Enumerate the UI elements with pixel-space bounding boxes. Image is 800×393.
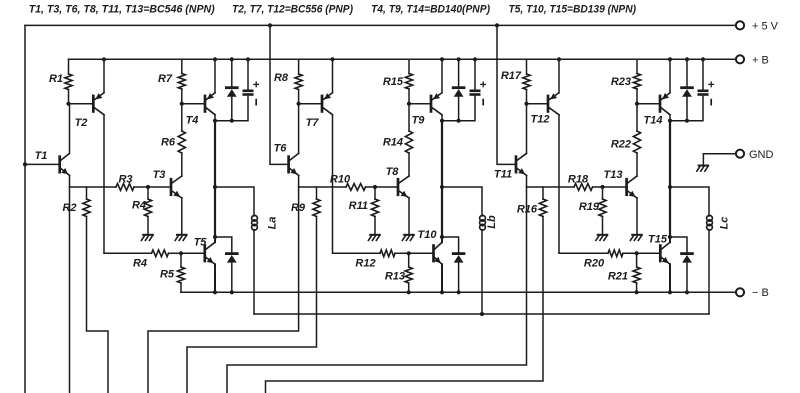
- wire T12 base: [527, 103, 549, 105]
- node T5 emitter -B: [213, 290, 217, 294]
- wire T14 emitter: [669, 59, 671, 92]
- wire T10 collector: [441, 237, 443, 242]
- wire left +5V drop / T1 base rail: [24, 25, 26, 393]
- wire T6 emitter: [298, 175, 300, 187]
- wire R21 bottom lead: [636, 283, 638, 292]
- node R13 -B: [407, 290, 411, 294]
- wire freewheel diode D4 top: [442, 237, 459, 252]
- wire T5 emitter: [214, 264, 216, 292]
- wire +5V drop to T6: [270, 25, 289, 164]
- resistor R19: [599, 199, 606, 217]
- svg-text:R6: R6: [161, 137, 176, 149]
- node B low: [440, 235, 444, 239]
- svg-text:R14: R14: [383, 137, 403, 149]
- resistor R23: [633, 74, 640, 90]
- wire GND lead: [703, 154, 735, 165]
- wire R15 leads: [408, 59, 410, 73]
- wire T13 emitter: [636, 198, 638, 234]
- svg-text:T1, T3, T6, T8, T11, T13=BC546: T1, T3, T6, T8, T11, T13=BC546 (NPN): [29, 4, 215, 16]
- node R23 bottom: [635, 102, 639, 106]
- wire T4 collector: [214, 115, 216, 121]
- wire T4 base: [182, 103, 205, 105]
- transistor T10: [432, 246, 435, 261]
- node D1 +B: [230, 57, 234, 61]
- wire inductor La top: [215, 187, 254, 216]
- svg-text:R5: R5: [160, 269, 175, 281]
- transistor T7: [321, 96, 324, 112]
- wire inductor Lb bottom: [481, 230, 483, 315]
- wire R20 to node: [623, 252, 660, 254]
- svg-text:Lc: Lc: [719, 217, 731, 230]
- wire T7 emitter: [332, 59, 334, 92]
- ground T3 emitter: [177, 234, 187, 236]
- wire R23 leads: [636, 59, 638, 73]
- wire node B row: [442, 97, 475, 121]
- node T15 emitter -B: [668, 290, 672, 294]
- transistor T14: [659, 96, 662, 112]
- node T7 emitter +B: [330, 57, 334, 61]
- transistor T6: [287, 157, 290, 173]
- wire R5 top lead: [180, 253, 182, 267]
- ground R11: [370, 234, 380, 236]
- diode D2: [226, 252, 237, 255]
- ground GND symbol: [699, 165, 709, 167]
- transistor T12: [547, 96, 550, 112]
- wire R19 top lead: [602, 187, 604, 199]
- wire R1 leads: [68, 59, 70, 74]
- wire R9 bottom exit: [187, 217, 317, 393]
- resistor R21: [633, 267, 640, 283]
- node D4 -B: [457, 290, 461, 294]
- svg-text:T9: T9: [412, 115, 426, 127]
- resistor R6: [178, 131, 185, 153]
- transistor T13: [625, 179, 628, 195]
- capacitor C2: [471, 90, 479, 93]
- svg-text:T4, T9, T14=BD140(PNP): T4, T9, T14=BD140(PNP): [371, 4, 490, 16]
- resistor R12: [380, 250, 395, 257]
- node T2 emitter +B: [102, 57, 106, 61]
- wire R14 top lead: [408, 104, 410, 131]
- terminal GND: [736, 150, 744, 158]
- svg-text:T7: T7: [306, 117, 320, 129]
- svg-text:R23: R23: [611, 76, 631, 88]
- ground R19: [598, 234, 608, 236]
- wire T11 emitter node: [527, 186, 575, 188]
- svg-text:T3: T3: [153, 169, 166, 181]
- wire +5V drop to T11: [497, 25, 516, 164]
- wire T2 collector corner: [104, 252, 152, 254]
- wire +5V rail: [25, 24, 736, 26]
- wire D3 leads: [458, 59, 460, 86]
- wire T9 emitter: [441, 59, 443, 92]
- wire R9 top lead: [316, 187, 318, 199]
- wire T6 collector: [298, 104, 300, 154]
- svg-text:R3: R3: [118, 174, 132, 186]
- node C low: [668, 235, 672, 239]
- wire T8 emitter: [408, 198, 410, 234]
- wire R2 bottom exit: [87, 217, 109, 393]
- svg-text:T2, T7, T12=BC556 (PNP): T2, T7, T12=BC556 (PNP): [232, 4, 353, 16]
- inductor La: [252, 215, 258, 221]
- wire R7 leads: [181, 59, 183, 73]
- wire T1 emitter: [69, 175, 71, 187]
- wire inductor La bottom: [253, 230, 255, 315]
- wire T9 base: [409, 103, 431, 105]
- node R21 top: [635, 251, 639, 255]
- svg-text:R8: R8: [274, 72, 289, 84]
- node T4 emitter +B: [213, 57, 217, 61]
- wire T15 collector: [669, 237, 671, 242]
- wire R3 to node: [134, 186, 171, 188]
- node diode D1 bottom: [230, 119, 234, 123]
- wire inductor Lc bottom: [708, 230, 710, 315]
- node R17 bottom: [524, 102, 528, 106]
- wire D2 bottom lead: [231, 263, 233, 292]
- node diode D5 bottom: [685, 119, 689, 123]
- svg-text:− B: − B: [752, 287, 769, 299]
- wire T2 collector drop: [103, 115, 105, 254]
- svg-text:R12: R12: [355, 258, 375, 270]
- node C2 +B: [473, 57, 477, 61]
- wire R5 bottom to -B: [181, 283, 214, 292]
- transistor T4: [204, 96, 207, 112]
- wire T5 collector: [214, 237, 216, 242]
- wire T9 collector: [441, 115, 443, 121]
- resistor R20: [608, 250, 623, 257]
- wire T12 collector corner: [559, 252, 608, 254]
- inductor Lc: [707, 215, 713, 221]
- svg-text:R7: R7: [158, 73, 173, 85]
- node B collector: [440, 119, 444, 123]
- svg-text:+ B: + B: [752, 55, 769, 67]
- wire R4 to node: [169, 252, 205, 254]
- svg-text:R4: R4: [133, 258, 147, 270]
- node R7 bottom: [180, 102, 184, 106]
- wire R10 to node: [366, 186, 399, 188]
- resistor R22: [633, 131, 640, 153]
- wire D5 leads: [686, 59, 688, 86]
- wire R16 bottom exit: [266, 217, 544, 393]
- node diode D3 bottom: [457, 119, 461, 123]
- svg-text:R13: R13: [385, 271, 405, 283]
- wire T1 base: [25, 163, 60, 165]
- wire freewheel diode D6 top: [670, 237, 687, 252]
- node C3 +B: [701, 57, 705, 61]
- svg-text:R11: R11: [349, 200, 368, 212]
- transistor T1: [58, 157, 61, 173]
- node D5 +B: [685, 57, 689, 61]
- svg-text:R16: R16: [517, 204, 538, 216]
- node D3 +B: [457, 57, 461, 61]
- svg-text:R17: R17: [501, 70, 522, 82]
- node T1 base: [23, 162, 27, 166]
- node C1 +B: [246, 57, 250, 61]
- node C inductor tap: [668, 185, 672, 189]
- svg-text:T5, T10, T15=BD139 (NPN): T5, T10, T15=BD139 (NPN): [509, 4, 637, 16]
- resistor R5: [177, 267, 184, 283]
- wire C vertical: [669, 121, 671, 237]
- transistor T9: [430, 96, 433, 112]
- wire R6 top lead: [181, 104, 183, 131]
- wire coil star bus: [254, 313, 709, 315]
- wire C1 top lead: [247, 59, 249, 90]
- wire D4 bottom lead: [458, 263, 460, 292]
- wire T7 collector corner: [333, 252, 380, 254]
- node T12 emitter +B: [557, 57, 561, 61]
- wire T11 emitter sense line: [227, 187, 527, 393]
- wire T14 collector: [669, 115, 671, 121]
- node T9 emitter +B: [440, 57, 444, 61]
- svg-text:T1: T1: [35, 150, 48, 162]
- wire C2 top lead: [474, 59, 476, 90]
- wire R22 top lead: [636, 104, 638, 131]
- svg-text:T6: T6: [274, 143, 288, 155]
- node R8 bottom: [297, 102, 301, 106]
- wire +B rail: [69, 58, 736, 60]
- wire T15 emitter: [669, 264, 671, 292]
- wire -B rail: [181, 291, 736, 293]
- wire B vertical: [441, 121, 443, 237]
- node T14 emitter +B: [668, 57, 672, 61]
- wire R13 bottom lead: [408, 283, 410, 292]
- svg-text:R10: R10: [330, 174, 351, 186]
- wire T1 emitter sense line: [69, 187, 71, 393]
- svg-text:La: La: [267, 217, 279, 230]
- resistor R11: [371, 199, 378, 217]
- wire node C row: [670, 97, 703, 121]
- wire R21 top lead: [636, 253, 638, 267]
- wire T1 collector: [69, 104, 71, 154]
- diode D4: [453, 252, 464, 255]
- wire D6 bottom lead: [686, 263, 688, 292]
- diode D3: [453, 86, 464, 89]
- node R19 top: [600, 185, 604, 189]
- svg-text:R19: R19: [579, 201, 600, 213]
- wire R16 top lead: [542, 187, 544, 199]
- resistor R16: [539, 199, 546, 217]
- resistor R1: [65, 74, 72, 90]
- svg-text:R22: R22: [611, 139, 631, 151]
- resistor R9: [313, 199, 320, 217]
- resistor R18: [574, 184, 593, 191]
- node A collector: [213, 119, 217, 123]
- resistor R7: [178, 74, 185, 90]
- svg-text:T4: T4: [186, 115, 199, 127]
- transistor T15: [659, 246, 662, 261]
- wire A vertical: [214, 121, 216, 237]
- wire R17 leads: [526, 59, 528, 74]
- wire R11 top lead: [374, 187, 376, 199]
- wire T8 collector: [408, 153, 410, 176]
- node A low: [213, 235, 217, 239]
- wire R19 bottom lead: [602, 217, 604, 234]
- wire T11 collector: [526, 104, 528, 154]
- transistor T5: [203, 246, 206, 261]
- wire T14 base: [637, 103, 660, 105]
- wire T12 emitter: [558, 59, 560, 92]
- wire R11 bottom lead: [374, 217, 376, 234]
- wire R4 top lead: [147, 187, 149, 199]
- diode D6: [682, 252, 693, 255]
- svg-text:R18: R18: [568, 174, 589, 186]
- node R5 top: [179, 251, 183, 255]
- wire T1 emitter node: [70, 186, 117, 188]
- node R15 bottom: [407, 102, 411, 106]
- transistor T8: [397, 179, 400, 195]
- node R13 top: [407, 251, 411, 255]
- wire inductor Lc top: [670, 187, 709, 216]
- wire T3 collector: [181, 153, 183, 176]
- wire inductor Lb top: [442, 187, 482, 216]
- wire T10 emitter: [441, 264, 443, 292]
- ground T13 emitter: [632, 234, 642, 236]
- svg-text:T2: T2: [75, 117, 88, 129]
- capacitor C1: [244, 90, 252, 93]
- wire T4 emitter: [214, 59, 216, 92]
- resistor R8: [295, 74, 302, 90]
- svg-text:R21: R21: [608, 271, 628, 283]
- svg-text:T15: T15: [648, 234, 668, 246]
- node R4 top: [146, 185, 150, 189]
- svg-text:Lb: Lb: [486, 215, 498, 229]
- resistor R10: [346, 184, 366, 191]
- svg-text:R20: R20: [584, 258, 605, 270]
- wire R13 top lead: [408, 253, 410, 267]
- inductor Lb: [480, 215, 486, 221]
- node R21 -B: [635, 290, 639, 294]
- svg-text:T14: T14: [644, 115, 663, 127]
- wire T11 emitter: [526, 175, 528, 187]
- svg-text:T5: T5: [194, 237, 208, 249]
- wire R4 bottom lead: [147, 217, 149, 234]
- wire D1 leads: [231, 59, 233, 86]
- wire C3 top lead: [702, 59, 704, 90]
- diode D1: [226, 86, 237, 89]
- wire T2 emitter: [103, 59, 105, 92]
- svg-text:T10: T10: [418, 229, 438, 241]
- node A inductor tap: [213, 185, 217, 189]
- resistor R4: [152, 250, 169, 257]
- resistor R2: [83, 199, 90, 217]
- svg-text:R4: R4: [132, 200, 146, 212]
- node D6 -B: [685, 290, 689, 294]
- resistor R4: [144, 199, 151, 217]
- svg-text:GND: GND: [749, 149, 774, 161]
- wire T2 base: [69, 103, 94, 105]
- node +5V drop T6: [268, 23, 272, 27]
- wire R18 to node: [593, 186, 627, 188]
- svg-text:R15: R15: [383, 76, 404, 88]
- node D2 -B: [230, 290, 234, 294]
- wire freewheel diode D2 top: [215, 237, 232, 252]
- node B inductor tap: [440, 185, 444, 189]
- svg-text:T12: T12: [531, 114, 550, 126]
- node C collector: [668, 119, 672, 123]
- svg-text:T8: T8: [386, 166, 400, 178]
- node T10 emitter -B: [440, 290, 444, 294]
- wire node A row: [215, 97, 248, 121]
- node +5V drop T11: [495, 23, 499, 27]
- diode D5: [682, 86, 693, 89]
- resistor R3: [116, 184, 134, 191]
- resistor R15: [405, 74, 412, 90]
- wire R8 leads: [298, 59, 300, 74]
- node R11 top: [373, 185, 377, 189]
- capacitor C3: [699, 90, 707, 93]
- terminal -B: [736, 288, 744, 296]
- wire R2 top lead: [86, 187, 88, 199]
- transistor T2: [92, 96, 95, 112]
- terminal +5V: [736, 21, 744, 29]
- svg-text:T13: T13: [604, 169, 623, 181]
- resistor R17: [523, 74, 530, 90]
- wire T3 emitter: [181, 198, 183, 234]
- wire T7 collector drop: [332, 115, 334, 254]
- resistor R14: [405, 131, 412, 153]
- wire T13 collector: [636, 153, 638, 176]
- wire T7 base: [299, 103, 322, 105]
- node star Lb: [480, 312, 484, 316]
- svg-text:+ 5 V: + 5 V: [752, 21, 779, 33]
- transistor T3: [170, 179, 173, 195]
- transistor T11: [515, 157, 518, 173]
- ground R4: [143, 234, 153, 236]
- wire T12 collector drop: [558, 115, 560, 254]
- node R1 bottom: [66, 102, 70, 106]
- svg-text:R1: R1: [49, 73, 63, 85]
- resistor R13: [405, 267, 412, 283]
- terminal +B: [736, 55, 744, 63]
- ground T8 emitter: [404, 234, 414, 236]
- wire T6 emitter sense line: [148, 187, 299, 393]
- svg-text:T11: T11: [494, 169, 512, 181]
- wire R12 to node: [395, 252, 434, 254]
- wire T6 emitter node: [299, 186, 346, 188]
